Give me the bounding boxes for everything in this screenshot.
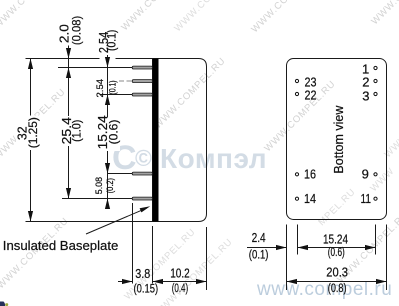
pin circles [295,66,377,200]
svg-text:(0.08): (0.08) [69,16,83,45]
svg-text:(1.0): (1.0) [70,120,84,142]
pin2 dashed stub [119,80,132,82]
package body [153,59,207,222]
svg-text:3: 3 [362,88,369,103]
svg-text:14: 14 [304,191,316,206]
bottom edge extension line [26,221,153,223]
dimension line 32 [30,59,32,222]
svg-text:15.24: 15.24 [323,233,348,247]
svg-text:Компэл: Компэл [160,143,267,174]
svg-text:www.compel.ru: www.compel.ru [256,279,392,300]
svg-text:(0.1): (0.1) [107,30,119,51]
pins side view [132,66,152,200]
svg-text:2.4: 2.4 [252,231,266,245]
pin labels [304,62,371,207]
svg-text:(0.2): (0.2) [105,178,115,193]
svg-text:(0.4): (0.4) [172,283,189,295]
svg-text:(0.1): (0.1) [108,80,118,94]
svg-text:5.08: 5.08 [94,177,105,194]
pin1 extension line [58,67,133,69]
bottom dims right: 2.4 / 15.24 / 20.3 [247,225,387,291]
svg-text:(0.8): (0.8) [328,283,347,295]
bottom dims: 3.8 / 10.2 [118,203,207,290]
svg-text:Insulated Baseplate: Insulated Baseplate [3,238,119,253]
pin5 extension line [62,198,133,200]
watermark big logo [111,134,267,177]
white text blocks on dim lines [16,116,42,151]
svg-text:(1.25): (1.25) [26,117,40,148]
svg-text:22: 22 [305,88,317,103]
pin3 extension line [100,94,133,96]
top edge extension line (gap at 2.54 arrow) [26,58,100,60]
svg-text:20.3: 20.3 [326,266,348,280]
rotated dimension texts [15,16,121,195]
svg-text:©: © [135,145,152,171]
svg-text:9: 9 [362,167,369,182]
dimension line 2.0 / 25.4 [68,46,70,199]
svg-text:(0.6): (0.6) [106,120,120,145]
tiny colored corner logo fragment [0,302,5,306]
svg-text:10.2: 10.2 [170,267,190,281]
svg-text:(0.15): (0.15) [134,284,159,296]
svg-text:2: 2 [362,74,369,89]
svg-text:3.8: 3.8 [135,267,150,281]
svg-text:2.54: 2.54 [95,79,106,98]
svg-text:(0.6): (0.6) [328,247,345,259]
svg-text:Bottom view: Bottom view [331,105,346,174]
insulated baseplate bar [153,59,159,222]
svg-text:11: 11 [361,191,372,206]
svg-text:(0.1): (0.1) [249,250,269,262]
dimension line 2.54/2.54/15.24/5.08 [107,55,109,208]
pin4 extension line [107,173,133,175]
svg-text:16: 16 [304,167,316,182]
